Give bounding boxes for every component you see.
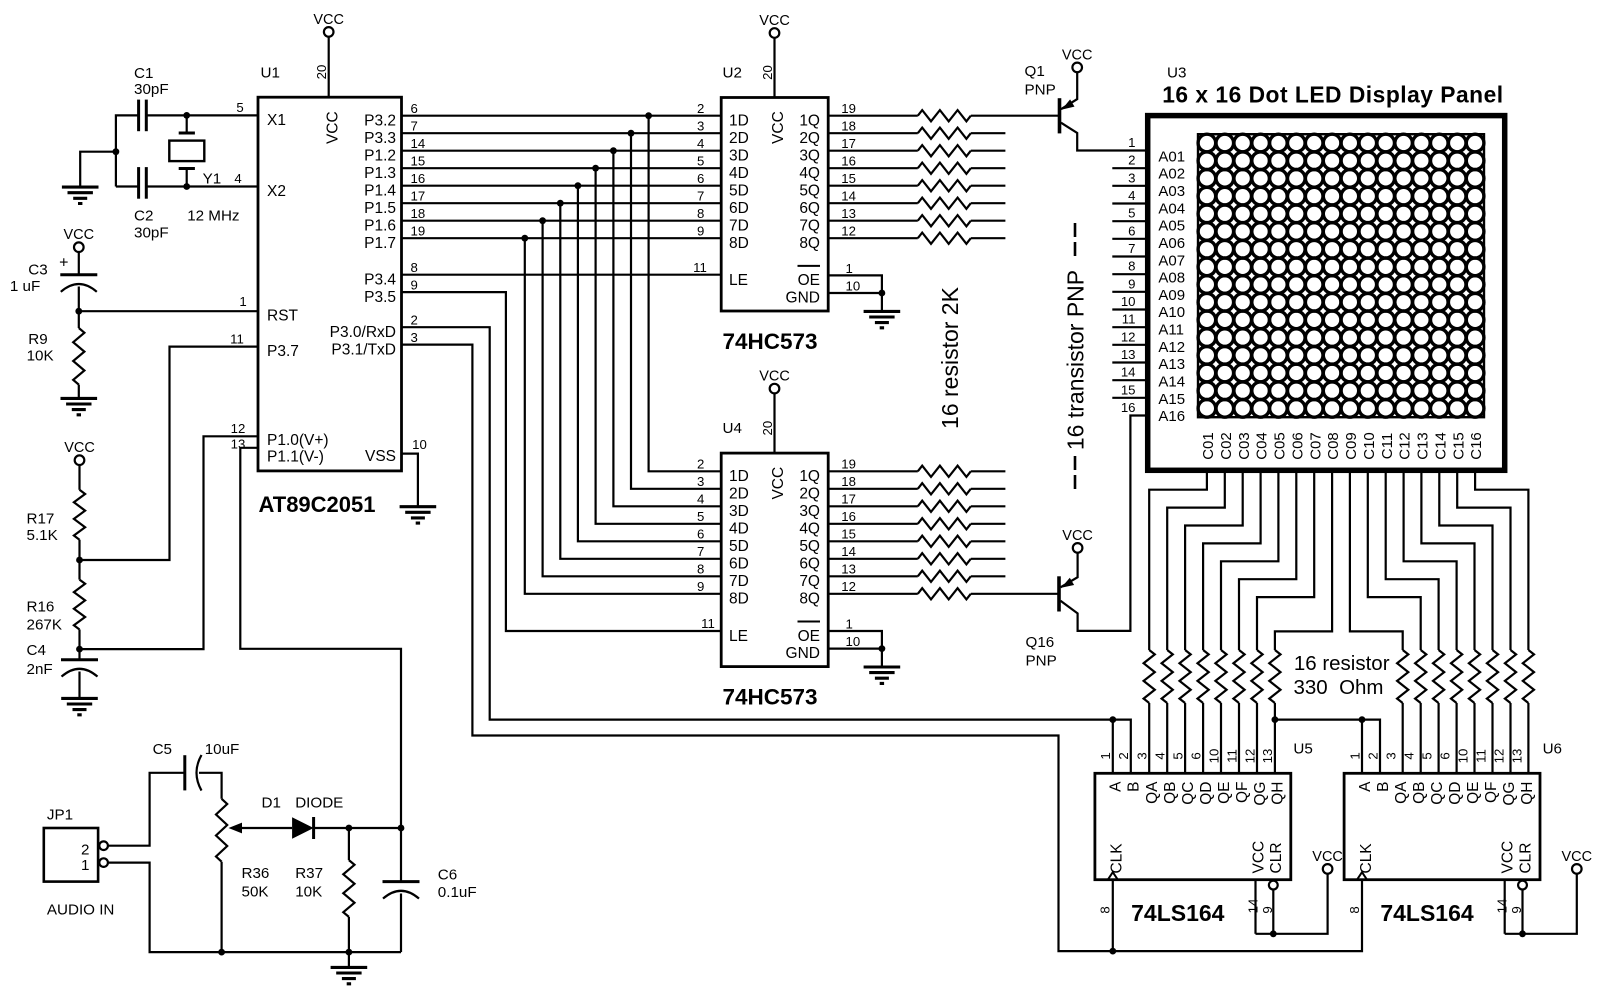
svg-text:12: 12 (841, 579, 856, 594)
VCC symbol above C3 (74, 242, 84, 252)
svg-text:VCC: VCC (63, 227, 94, 243)
svg-text:P1.1(V-): P1.1(V-) (267, 449, 324, 466)
svg-text:4: 4 (697, 491, 704, 506)
wire panel C05 to resistor (1221, 470, 1278, 650)
svg-text:VCC: VCC (1561, 849, 1592, 865)
svg-text:2nF: 2nF (27, 661, 53, 678)
svg-text:B: B (1126, 782, 1143, 792)
wire C2 to X2 line (116, 185, 139, 187)
svg-text:A14: A14 (1158, 374, 1185, 391)
wire C5 to R36 (199, 773, 222, 799)
svg-text:A11: A11 (1158, 322, 1184, 339)
wire U5 CLK drop (1112, 880, 1114, 951)
wire drop to U4 8D (525, 238, 721, 594)
svg-text:10: 10 (1121, 294, 1136, 309)
svg-text:3: 3 (1128, 170, 1135, 185)
wire P3.1 clock line (402, 345, 1363, 952)
svg-text:19: 19 (841, 457, 856, 472)
svg-text:P3.4: P3.4 (364, 271, 396, 288)
resistor R36 potentiometer (216, 799, 227, 862)
svg-text:2Q: 2Q (799, 130, 820, 147)
resistor 330-13 (1469, 650, 1480, 703)
svg-text:QF: QF (1483, 782, 1500, 804)
svg-text:5Q: 5Q (799, 538, 820, 555)
svg-text:QF: QF (1234, 782, 1251, 804)
svg-text:4D: 4D (729, 521, 749, 538)
svg-text:QH: QH (1519, 782, 1536, 805)
svg-text:15: 15 (841, 527, 856, 542)
svg-text:VCC: VCC (324, 111, 341, 144)
svg-text:11: 11 (230, 332, 244, 347)
svg-text:C14: C14 (1432, 432, 1449, 460)
wire panel C11 to resistor (1386, 470, 1439, 650)
svg-text:QD: QD (1447, 782, 1464, 805)
wire C3 to RST junction (78, 287, 80, 312)
svg-text:A10: A10 (1158, 304, 1185, 321)
svg-text:B: B (1375, 782, 1392, 792)
wire drop to U4 6D (560, 203, 721, 559)
resistor 2K row1-1 (828, 115, 918, 117)
svg-text:2: 2 (1116, 752, 1131, 759)
U6 CLR inversion circle (1518, 881, 1527, 890)
VCC symbol above R17 (75, 455, 85, 465)
junction C1-C2-ground (113, 148, 120, 155)
resistor 330-10 (1415, 650, 1426, 703)
svg-text:PNP: PNP (1025, 81, 1056, 98)
wire cascade U5 QH to U6 A and B (1275, 720, 1380, 774)
wire RST to U1 (79, 310, 258, 312)
capacitor C5 polarized (183, 755, 186, 790)
label 16 transistor PNP dashed axis (1074, 223, 1077, 489)
svg-text:C15: C15 (1450, 432, 1467, 460)
resistor 330-12 (1451, 650, 1462, 703)
svg-text:C03: C03 (1236, 432, 1253, 460)
wire drop to U4 5D (578, 186, 721, 542)
svg-text:5D: 5D (729, 182, 749, 199)
resistor 2K row2-3 (828, 505, 918, 507)
svg-text:A05: A05 (1158, 218, 1185, 235)
wire JP1 pin2 to C5 (108, 773, 185, 846)
svg-text:20: 20 (314, 65, 329, 80)
ground below R9 (61, 398, 98, 414)
wire drop to U4 3D (613, 151, 721, 507)
svg-text:16: 16 (1121, 400, 1136, 415)
svg-text:12: 12 (231, 421, 246, 436)
svg-text:AT89C2051: AT89C2051 (259, 492, 376, 517)
resistor 330-11 (1433, 650, 1444, 703)
wire VSS to ground (402, 454, 418, 507)
wire Q1 collector (1061, 123, 1148, 151)
svg-text:C07: C07 (1307, 432, 1324, 460)
svg-text:2: 2 (697, 101, 704, 116)
svg-text:19: 19 (411, 223, 426, 238)
resistor 330-8 (1269, 650, 1280, 703)
ground below VSS (400, 507, 437, 523)
junction bus 1 drop (645, 112, 652, 119)
svg-text:QA: QA (1144, 781, 1161, 804)
svg-text:3Q: 3Q (799, 503, 820, 520)
svg-text:16: 16 (841, 154, 856, 169)
svg-text:A: A (1108, 781, 1125, 792)
resistor 2K row2-8 (828, 593, 918, 595)
wire P1.1 to detector node (240, 448, 401, 828)
resistor 2K row1-6 (828, 202, 918, 204)
resistor 2K row1-5 (828, 185, 918, 187)
resistor 330-3 (1180, 650, 1191, 703)
svg-text:PNP: PNP (1026, 652, 1057, 669)
svg-text:11: 11 (1224, 749, 1239, 763)
wire U2 pin20 to VCC (773, 38, 775, 98)
svg-text:5: 5 (1420, 752, 1435, 759)
svg-text:3Q: 3Q (799, 147, 820, 164)
svg-text:74HC573: 74HC573 (722, 685, 817, 710)
transistor Q16 PNP (1057, 576, 1061, 611)
resistor 330-7 (1251, 650, 1262, 703)
wire Q1 emitter (1061, 72, 1077, 109)
svg-text:2: 2 (81, 841, 89, 858)
svg-text:CLR: CLR (1268, 842, 1285, 873)
svg-text:A09: A09 (1158, 287, 1185, 304)
wire bus P-line 8 U1 to U2 (402, 237, 722, 239)
svg-text:QB: QB (1411, 782, 1428, 804)
svg-text:C11: C11 (1379, 433, 1396, 459)
svg-text:LE: LE (729, 628, 748, 645)
resistor R9 (78, 311, 80, 328)
IC U2 74HC573 body (721, 98, 828, 312)
svg-text:5: 5 (236, 100, 243, 115)
svg-text:9: 9 (697, 579, 704, 594)
LED matrix dots (1198, 134, 1484, 417)
svg-text:AUDIO IN: AUDIO IN (47, 902, 115, 919)
wire bus P-line 5 U1 to U2 (402, 185, 722, 187)
svg-text:6: 6 (1128, 223, 1135, 238)
svg-text:7D: 7D (729, 573, 749, 590)
svg-text:QD: QD (1198, 782, 1215, 805)
capacitor C1 (137, 100, 140, 132)
svg-text:15: 15 (411, 153, 426, 168)
svg-text:DIODE: DIODE (295, 794, 343, 811)
svg-text:2Q: 2Q (799, 486, 820, 503)
resistor 2K row1-3 (828, 150, 918, 152)
svg-text:QE: QE (1465, 782, 1482, 804)
U5 CLR inversion circle (1269, 881, 1278, 890)
svg-text:QB: QB (1162, 782, 1179, 804)
svg-text:C5: C5 (153, 741, 172, 758)
junction clock at U5 CLK (1109, 948, 1116, 955)
svg-text:7Q: 7Q (799, 217, 820, 234)
svg-text:5: 5 (697, 509, 704, 524)
svg-text:10: 10 (846, 634, 861, 649)
svg-text:A13: A13 (1158, 356, 1185, 373)
svg-text:7: 7 (697, 188, 704, 203)
svg-text:VCC: VCC (770, 111, 787, 144)
wire U6 pin A riser (1361, 720, 1363, 774)
wire P3.4 to U2 LE (402, 274, 722, 276)
svg-text:9: 9 (697, 223, 704, 238)
svg-text:2: 2 (1128, 153, 1135, 168)
svg-text:2D: 2D (729, 486, 749, 503)
svg-text:3: 3 (697, 474, 704, 489)
svg-text:A01: A01 (1158, 148, 1185, 165)
svg-text:P3.1/TxD: P3.1/TxD (331, 341, 396, 358)
wire bus P-line 3 U1 to U2 (402, 150, 722, 152)
svg-text:8: 8 (1098, 906, 1113, 913)
svg-text:2: 2 (411, 312, 418, 327)
resistor 2K row2-7 (828, 575, 918, 577)
ground audio section (331, 967, 368, 983)
svg-text:18: 18 (411, 206, 426, 221)
svg-text:Q16: Q16 (1026, 634, 1055, 651)
svg-text:50K: 50K (242, 883, 269, 900)
svg-text:6: 6 (1188, 752, 1203, 759)
svg-text:3: 3 (1384, 752, 1399, 759)
wire D1 anode (240, 827, 292, 829)
svg-text:A08: A08 (1158, 270, 1185, 287)
svg-text:VCC: VCC (770, 467, 787, 500)
svg-text:6D: 6D (729, 556, 749, 573)
svg-text:17: 17 (841, 136, 856, 151)
wire drop to U4 4D (596, 168, 722, 524)
wire C4 to ground (78, 672, 80, 698)
svg-text:C09: C09 (1343, 432, 1360, 460)
svg-text:5: 5 (1128, 206, 1135, 221)
wire U4 OE to GND (828, 631, 882, 649)
svg-text:CLK: CLK (1109, 843, 1126, 874)
svg-text:6Q: 6Q (799, 200, 820, 217)
junction R17-R16 node (76, 557, 83, 564)
junction R37 bottom / ground (346, 949, 353, 956)
svg-text:20: 20 (760, 421, 775, 436)
svg-text:6: 6 (697, 526, 704, 541)
svg-text:+: + (59, 254, 68, 271)
svg-text:3D: 3D (729, 147, 749, 164)
U2 VCC symbol (770, 28, 780, 38)
svg-text:12 MHz: 12 MHz (187, 207, 239, 224)
svg-text:VCC: VCC (1062, 528, 1093, 544)
wire drop to U4 1D (649, 116, 722, 472)
svg-text:9: 9 (411, 277, 418, 292)
junction bus 6 drop (557, 200, 564, 207)
wire drop to U4 7D (543, 221, 722, 577)
svg-text:C6: C6 (438, 866, 457, 883)
wire VCC to C3 (78, 252, 80, 275)
capacitor C4 (78, 649, 80, 660)
svg-text:14: 14 (1245, 899, 1260, 914)
svg-text:C08: C08 (1325, 432, 1342, 460)
svg-text:6: 6 (697, 171, 704, 186)
wire panel C10 to resistor (1368, 470, 1421, 650)
svg-text:QH: QH (1270, 782, 1287, 805)
svg-text:20: 20 (760, 65, 775, 80)
svg-text:14: 14 (841, 544, 856, 559)
U6 CLK marker (1357, 872, 1367, 880)
svg-text:A07: A07 (1158, 252, 1185, 269)
svg-text:17: 17 (411, 188, 426, 203)
svg-text:5D: 5D (729, 538, 749, 555)
svg-text:10: 10 (1206, 749, 1221, 764)
crystal Y1 (186, 115, 188, 133)
svg-text:8: 8 (697, 206, 704, 221)
wire P3.0 data to U5 A and B (402, 327, 1131, 773)
svg-text:C16: C16 (1468, 432, 1485, 460)
wire X2 line to U1 (187, 185, 258, 187)
svg-text:8Q: 8Q (799, 235, 820, 252)
svg-text:Q1: Q1 (1025, 63, 1045, 80)
resistor 2K row1-7 (828, 220, 918, 222)
svg-text:P3.3: P3.3 (364, 130, 396, 147)
wire U5 CLR down (1272, 890, 1274, 934)
capacitor C3 polarized (60, 273, 97, 276)
svg-text:1D: 1D (729, 468, 749, 485)
wire U4 pin20 to VCC (773, 393, 775, 453)
svg-text:4Q: 4Q (799, 521, 820, 538)
wire U1 pin 20 to VCC (328, 37, 330, 97)
wire R16/C4 junction to P1.0 (80, 436, 259, 649)
wire bus P-line 2 U1 to U2 (402, 132, 722, 134)
junction U5 CLR/VCC (1270, 930, 1277, 937)
svg-text:OE: OE (798, 628, 820, 645)
svg-text:5: 5 (1170, 752, 1185, 759)
resistor 330-6 (1233, 650, 1244, 703)
svg-text:4: 4 (1152, 752, 1167, 759)
wire JP1 pin1 to ground rail (108, 863, 401, 953)
svg-text:VCC: VCC (1312, 849, 1343, 865)
svg-text:C05: C05 (1272, 432, 1289, 460)
junction data at U5 A (1109, 716, 1116, 723)
svg-text:4: 4 (1128, 188, 1135, 203)
svg-text:1: 1 (1128, 135, 1135, 150)
connector JP1 (44, 828, 98, 882)
svg-text:JP1: JP1 (47, 807, 73, 824)
wire panel C04 to resistor (1203, 470, 1261, 650)
svg-text:14: 14 (841, 189, 856, 204)
svg-text:A16: A16 (1158, 408, 1185, 425)
svg-text:8: 8 (1128, 259, 1135, 274)
svg-text:11: 11 (1122, 312, 1136, 327)
svg-text:13: 13 (1509, 749, 1524, 764)
svg-text:C1: C1 (134, 65, 153, 82)
svg-text:P3.5: P3.5 (364, 289, 396, 306)
svg-text:1 uF: 1 uF (10, 278, 40, 295)
junction U2 GND (879, 290, 886, 297)
svg-text:C13: C13 (1415, 432, 1432, 460)
svg-text:C3: C3 (28, 261, 47, 278)
R36 wiper arrow (229, 823, 243, 834)
wire Q16 emitter (1061, 553, 1078, 588)
svg-text:6: 6 (1438, 752, 1453, 759)
U4 VCC symbol (770, 384, 780, 394)
diode D1 (292, 817, 314, 838)
junction bus 7 drop (539, 217, 546, 224)
IC U6 74LS164 body (1344, 773, 1540, 879)
svg-text:C04: C04 (1254, 432, 1271, 460)
resistor 2K row1-8 (828, 237, 918, 239)
svg-text:P3.2: P3.2 (364, 112, 396, 129)
wire U6 CLR down (1521, 890, 1523, 934)
svg-text:7: 7 (411, 118, 418, 133)
svg-text:8: 8 (697, 561, 704, 576)
svg-text:19: 19 (841, 101, 856, 116)
svg-text:1D: 1D (729, 112, 749, 129)
svg-text:C4: C4 (27, 642, 46, 659)
wire U5 pin A riser (1112, 720, 1114, 774)
resistor 330-16 (1523, 650, 1534, 703)
wire panel C14 to resistor (1439, 470, 1492, 650)
svg-text:8Q: 8Q (799, 591, 820, 608)
wire panel C02 to resistor (1167, 470, 1225, 650)
LED panel U3 outer box (1148, 116, 1505, 471)
wire U5 to VCC symbol (1256, 874, 1328, 934)
svg-text:QE: QE (1216, 782, 1233, 804)
wire Q16 collector (1061, 416, 1148, 631)
svg-text:267K: 267K (27, 616, 62, 633)
svg-text:U3: U3 (1167, 64, 1186, 81)
svg-text:D1: D1 (262, 794, 281, 811)
wire U5 VCC pin down (1254, 880, 1256, 934)
svg-text:VCC: VCC (313, 12, 344, 28)
svg-text:11: 11 (701, 616, 715, 631)
svg-text:U2: U2 (723, 64, 742, 81)
svg-text:1: 1 (846, 261, 853, 276)
svg-text:1: 1 (1347, 752, 1362, 759)
svg-text:C02: C02 (1218, 432, 1235, 460)
wire panel C09 to resistor (1350, 470, 1403, 650)
svg-text:VCC: VCC (759, 369, 790, 385)
svg-text:7Q: 7Q (799, 573, 820, 590)
ground U4 (864, 667, 901, 683)
svg-text:4D: 4D (729, 165, 749, 182)
capacitor C2 (137, 167, 140, 199)
svg-text:13: 13 (231, 437, 246, 452)
svg-text:12: 12 (1491, 749, 1506, 764)
svg-text:A12: A12 (1158, 339, 1185, 356)
svg-text:VCC: VCC (1499, 841, 1516, 874)
resistor 330-14 (1487, 650, 1498, 703)
resistor 2K row2-5 (828, 540, 918, 542)
svg-text:12: 12 (841, 224, 856, 239)
svg-text:8: 8 (411, 260, 418, 275)
svg-text:16: 16 (841, 509, 856, 524)
wire panel C08 to resistor (1275, 470, 1332, 650)
resistor 2K row2-6 (828, 558, 918, 560)
junction U4 GND (879, 645, 886, 652)
svg-text:1: 1 (1098, 752, 1113, 759)
svg-text:14: 14 (411, 136, 426, 151)
svg-text:5: 5 (697, 153, 704, 168)
wire U2 GND stub (881, 293, 883, 311)
svg-text:10: 10 (412, 437, 427, 452)
junction bus 2 drop (628, 130, 635, 137)
wire panel C06 to resistor (1239, 470, 1296, 650)
svg-text:R36: R36 (242, 865, 270, 882)
svg-text:U6: U6 (1543, 740, 1562, 757)
resistor 330-1 (1144, 650, 1155, 703)
svg-text:16 x 16 Dot LED Display Panel: 16 x 16 Dot LED Display Panel (1162, 82, 1503, 108)
junction bus 8 drop (521, 235, 528, 242)
svg-text:15: 15 (1121, 382, 1136, 397)
wire U4 GND out (828, 647, 882, 649)
svg-text:C2: C2 (134, 207, 153, 224)
wire P3.5 to U4 LE (402, 292, 722, 631)
svg-text:17: 17 (841, 492, 856, 507)
svg-text:QA: QA (1393, 781, 1410, 804)
svg-text:4: 4 (697, 136, 704, 151)
wire D1 cathode to node (314, 827, 401, 829)
wire panel C15 to resistor (1457, 470, 1510, 650)
svg-text:0.1uF: 0.1uF (438, 884, 477, 901)
svg-text:GND: GND (786, 289, 820, 306)
svg-text:16 resistor: 16 resistor (1294, 652, 1390, 675)
